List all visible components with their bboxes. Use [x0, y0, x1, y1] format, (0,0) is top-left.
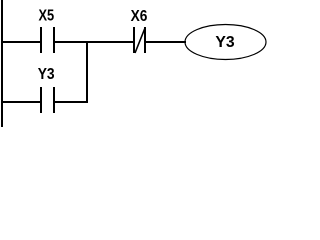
left power rail	[1, 0, 3, 127]
svg-text:Y3: Y3	[38, 66, 55, 83]
contact Y3 (seal-in)	[38, 66, 55, 113]
contact X5	[39, 8, 56, 53]
svg-text:Y3: Y3	[215, 34, 234, 51]
wire rail to X5	[1, 41, 40, 43]
wire X6 to coil	[146, 41, 186, 43]
node junction vertical wire	[86, 41, 88, 103]
contact X6 (normally closed)	[131, 8, 148, 53]
coil Y3	[185, 25, 266, 60]
wire Y3 contact to junction	[55, 101, 88, 103]
wire rail to Y3 contact (parallel branch)	[1, 101, 40, 103]
svg-text:X5: X5	[39, 8, 55, 25]
wire X5 to X6	[55, 41, 133, 43]
svg-text:X6: X6	[131, 8, 148, 25]
